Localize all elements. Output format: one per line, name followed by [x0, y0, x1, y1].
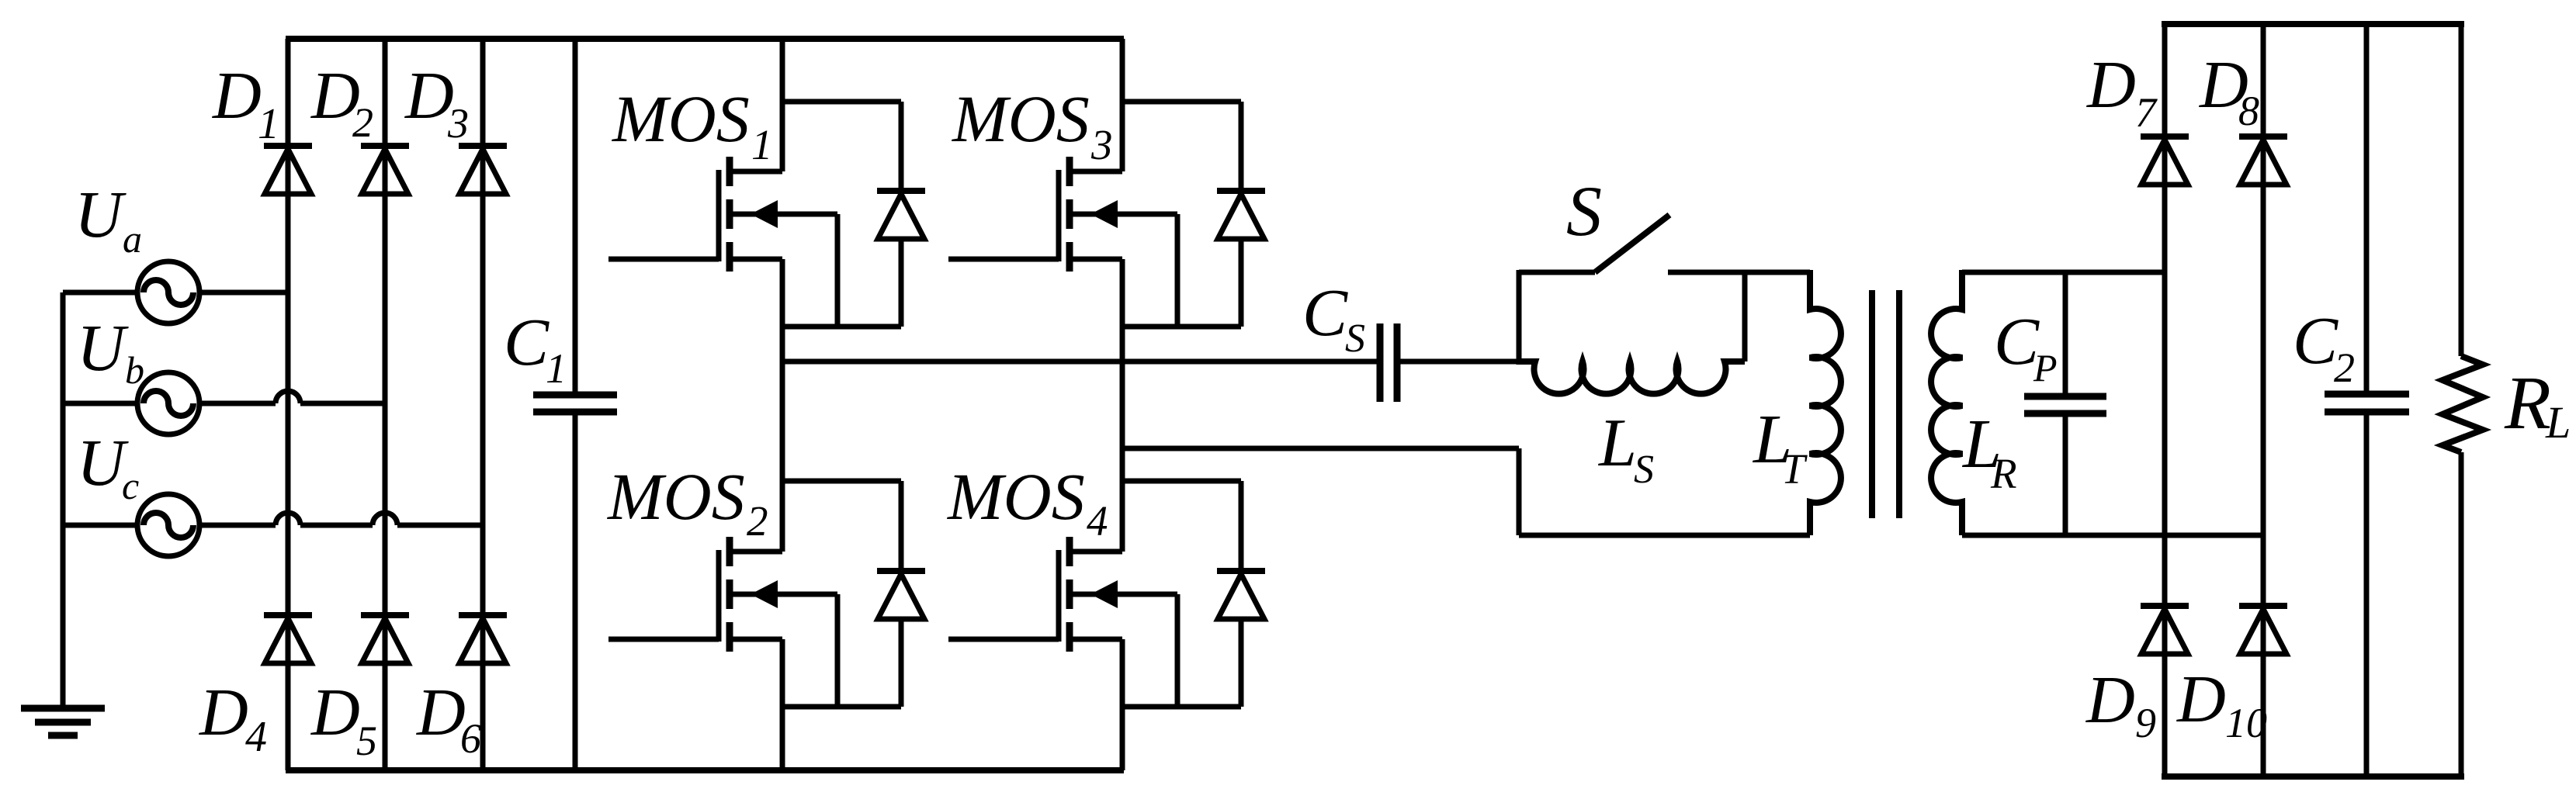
diode D8 [2239, 137, 2287, 185]
wire inverter output A (to CS) [782, 359, 1377, 365]
inductor LR (secondary) [1931, 270, 1962, 535]
wire MOS1 source junction [782, 324, 901, 330]
wire S/LS right side [1742, 272, 1748, 361]
svg-text:D: D [416, 674, 466, 749]
wire inverter output B (return) [1122, 446, 1519, 451]
body diode of MOS1 [877, 191, 925, 239]
label LS [1597, 406, 1654, 492]
svg-text:7: 7 [2135, 89, 2158, 136]
wire secondary top bus [2162, 21, 2464, 27]
diode D7 [2141, 137, 2189, 185]
svg-text:10: 10 [2225, 700, 2267, 746]
svg-text:U: U [77, 310, 129, 385]
capacitor C2 [2325, 394, 2409, 412]
svg-text:R: R [1990, 450, 2017, 497]
svg-text:1: 1 [546, 345, 567, 392]
wire LS/LT bottom return [1519, 448, 1810, 535]
wire phase a [63, 290, 288, 296]
wire phase c [63, 513, 483, 525]
label CP [1994, 303, 2058, 389]
transistor MOS2 [608, 537, 837, 652]
wire D2/D5 leg [383, 39, 388, 770]
wire phase b [63, 391, 385, 403]
wire D1/D4 leg [286, 39, 291, 770]
svg-text:T: T [1781, 445, 1808, 493]
wire secondary bottom bus [2162, 773, 2464, 780]
wire MOS2 diode anode [899, 619, 904, 707]
svg-text:b: b [125, 348, 144, 392]
transformer core [1872, 290, 1899, 518]
wire bottom DC bus [286, 767, 1124, 773]
label D5 [310, 674, 377, 764]
wire MOS2 body-diode branch [782, 481, 901, 573]
svg-text:1: 1 [258, 100, 279, 148]
wire S/LS left side [1517, 270, 1522, 365]
wire MOS3/MOS4 midpoint [1120, 259, 1125, 552]
svg-text:D: D [2086, 47, 2136, 122]
wire MOS1/MOS2 midpoint [780, 259, 785, 552]
svg-text:3: 3 [1090, 121, 1113, 168]
wire left rail (source common) [61, 292, 66, 708]
diode D6 [459, 615, 507, 663]
ground [21, 708, 105, 735]
wire top DC bus [286, 36, 1124, 42]
wire CP branch lower [2063, 416, 2068, 535]
svg-text:5: 5 [356, 718, 377, 764]
wire MOS4 body return [1175, 594, 1181, 707]
svg-text:U: U [75, 177, 127, 251]
wire LR bottom to rectifier [1962, 533, 2263, 538]
svg-text:9: 9 [2135, 700, 2156, 746]
capacitor CP [2024, 396, 2106, 413]
svg-text:S: S [1566, 171, 1602, 251]
wire RL leg lower [2459, 452, 2464, 777]
svg-text:MOS: MOS [611, 81, 750, 156]
svg-text:S: S [1634, 448, 1654, 492]
label MOS3 [951, 81, 1113, 168]
svg-text:L: L [1597, 406, 1637, 481]
wire C2 leg upper [2364, 24, 2370, 392]
svg-text:6: 6 [460, 715, 481, 762]
label D4 [199, 674, 267, 761]
svg-text:2: 2 [352, 99, 373, 146]
wire D3/D6 leg [480, 39, 486, 770]
wire MOS1 body-diode branch [782, 102, 901, 192]
wire D8/D10 leg [2261, 24, 2266, 777]
label C1 [504, 304, 567, 392]
svg-text:4: 4 [245, 713, 267, 761]
svg-text:2: 2 [2334, 344, 2355, 391]
wire MOS3 diode anode [1239, 239, 1244, 327]
wire MOS4 source to bottom bus [1120, 639, 1125, 770]
svg-text:D: D [404, 57, 454, 133]
wire C2 leg lower [2364, 414, 2370, 777]
wire MOS1 drain from top bus [780, 39, 785, 171]
svg-text:U: U [77, 425, 129, 500]
svg-text:C: C [1302, 275, 1348, 350]
svg-text:C: C [2293, 303, 2339, 378]
label D2 [310, 57, 373, 146]
diode D9 [2141, 606, 2189, 654]
wire CS to LS network [1400, 359, 1519, 365]
wire MOS2 body return [835, 594, 841, 707]
label Uc [77, 425, 139, 507]
transistor MOS4 [948, 537, 1177, 652]
svg-text:P: P [2033, 346, 2058, 389]
label C2 [2293, 303, 2355, 391]
svg-text:MOS: MOS [946, 459, 1085, 534]
capacitor CS [1380, 323, 1397, 402]
capacitor C1 [533, 395, 617, 412]
wire D7/D9 leg [2162, 24, 2168, 777]
wire MOS3 body return [1175, 214, 1181, 327]
label RL [2504, 361, 2571, 448]
source Ua [137, 261, 199, 323]
svg-text:2: 2 [747, 497, 768, 545]
svg-text:3: 3 [447, 100, 469, 147]
label MOS1 [611, 81, 773, 168]
label D9 [2085, 662, 2156, 746]
diode D10 [2239, 606, 2287, 654]
label CS [1302, 275, 1365, 361]
wire LR top to rectifier [1962, 270, 2165, 275]
resistor RL [2443, 356, 2483, 452]
svg-text:L: L [2545, 397, 2571, 448]
svg-text:MOS: MOS [951, 81, 1090, 156]
label D3 [404, 57, 469, 147]
switch S [1595, 215, 1669, 272]
inductor LT (primary) [1810, 270, 1841, 535]
label MOS4 [946, 459, 1108, 545]
svg-text:MOS: MOS [606, 459, 745, 534]
wire RL leg upper [2459, 24, 2464, 356]
label D10 [2176, 661, 2267, 746]
label MOS2 [606, 459, 768, 545]
label D7 [2086, 47, 2158, 136]
svg-text:c: c [122, 464, 139, 507]
source Ub [137, 372, 199, 434]
wire MOS2 source to bottom bus [780, 639, 785, 770]
label Ua [75, 177, 142, 261]
diode D2 [361, 146, 409, 194]
wire C1 leg lower [573, 414, 578, 770]
wire MOS1 diode anode [899, 239, 904, 327]
body diode of MOS4 [1217, 571, 1265, 619]
label LT [1752, 401, 1808, 493]
wire switch feed [1519, 270, 1595, 275]
svg-text:C: C [504, 304, 550, 379]
svg-text:a: a [123, 217, 142, 261]
svg-text:R: R [2504, 361, 2551, 445]
wire MOS4 diode anode [1239, 619, 1244, 707]
label D8 [2199, 47, 2259, 134]
wire CP branch upper [2063, 272, 2068, 394]
source Uc [137, 494, 199, 556]
svg-text:D: D [199, 674, 248, 749]
svg-text:D: D [2085, 662, 2135, 737]
svg-text:D: D [2176, 661, 2226, 736]
label D1 [212, 57, 279, 148]
svg-text:8: 8 [2238, 88, 2259, 134]
label LR [1961, 406, 2017, 497]
wire MOS4 source junction [1122, 704, 1241, 710]
svg-text:D: D [212, 57, 262, 133]
svg-text:S: S [1345, 317, 1365, 361]
wire switch to LT [1668, 270, 1810, 275]
diode D3 [459, 146, 507, 194]
svg-text:D: D [310, 674, 360, 749]
transistor MOS3 [948, 157, 1177, 272]
inductor LS [1519, 361, 1745, 394]
wire MOS3 body-diode branch [1122, 102, 1241, 192]
diode D4 [264, 615, 312, 663]
body diode of MOS3 [1217, 191, 1265, 239]
wire MOS3 drain from top bus [1120, 39, 1125, 171]
label D6 [416, 674, 481, 762]
wire MOS3 source junction [1122, 324, 1241, 330]
body diode of MOS2 [877, 571, 925, 619]
diode D5 [361, 615, 409, 663]
wire MOS4 body-diode branch [1122, 481, 1241, 573]
wire MOS2 source junction [782, 704, 901, 710]
svg-text:4: 4 [1087, 497, 1108, 545]
diode D1 [264, 146, 312, 194]
wire MOS1 body return [835, 214, 841, 327]
label Ub [77, 310, 144, 392]
wire C1 leg upper [573, 39, 578, 393]
svg-text:1: 1 [751, 121, 773, 168]
transistor MOS1 [608, 157, 837, 272]
label S [1566, 171, 1602, 251]
